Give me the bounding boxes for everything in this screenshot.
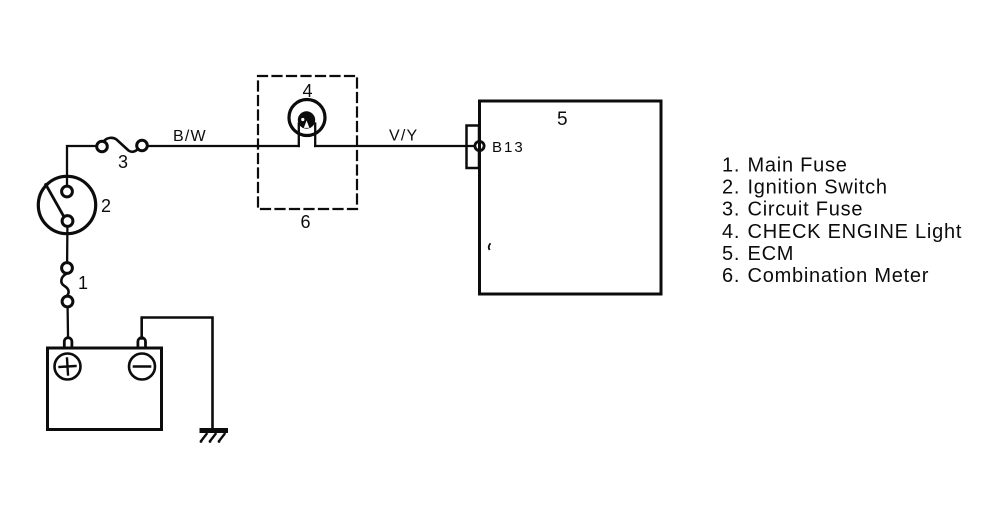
svg-text:1: 1: [78, 273, 88, 293]
stray mark: [489, 244, 490, 249]
main fuse F1: [61, 263, 73, 307]
battery negative terminal loop: [138, 338, 146, 348]
CHECK ENGINE bulb L4: [289, 100, 325, 147]
svg-text:Circuit Fuse: Circuit Fuse: [748, 199, 864, 221]
wire main fuse to battery: [66, 307, 69, 336]
svg-text:B/W: B/W: [173, 128, 207, 145]
svg-text:ECM: ECM: [748, 243, 795, 265]
svg-text:4: 4: [303, 81, 313, 101]
battery B1: [48, 348, 162, 430]
ground: [200, 428, 229, 443]
svg-text:B13: B13: [492, 139, 525, 156]
circuit fuse F3: [97, 138, 148, 152]
svg-text:2: 2: [101, 196, 111, 216]
svg-text:4.: 4.: [722, 221, 740, 243]
wire ignition switch to main fuse: [66, 227, 69, 262]
wire battery negative to ground: [142, 318, 213, 429]
svg-text:Combination Meter: Combination Meter: [748, 265, 930, 287]
ECM box 5: [480, 101, 662, 294]
svg-text:Main Fuse: Main Fuse: [748, 155, 848, 177]
svg-text:V/Y: V/Y: [389, 128, 418, 145]
wire from ignition switch corner to circuit fuse: [67, 146, 97, 186]
ignition switch S2: [38, 176, 95, 233]
ECM connector tab: [467, 126, 480, 169]
svg-text:5.: 5.: [722, 243, 740, 265]
legend: [722, 155, 962, 287]
wire B/W segment: [148, 145, 299, 147]
connector pin circle B13: [475, 141, 484, 150]
svg-text:6: 6: [301, 212, 311, 232]
svg-text:5: 5: [557, 109, 568, 130]
svg-text:1.: 1.: [722, 155, 740, 177]
svg-text:2.: 2.: [722, 177, 740, 199]
svg-text:3: 3: [118, 152, 128, 172]
svg-text:CHECK ENGINE Light: CHECK ENGINE Light: [748, 221, 963, 243]
wire V/Y segment: [315, 145, 474, 147]
svg-text:3.: 3.: [722, 199, 740, 221]
battery positive terminal loop: [64, 338, 72, 348]
svg-text:Ignition Switch: Ignition Switch: [748, 177, 888, 199]
combination meter dashed box 6: [258, 76, 357, 209]
svg-text:6.: 6.: [722, 265, 740, 287]
